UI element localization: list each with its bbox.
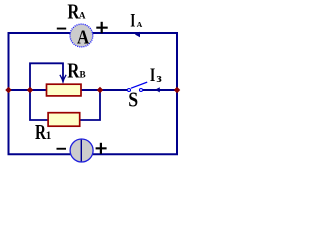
ammeter A (circle) — [70, 24, 93, 47]
wire middle branch right of switch — [143, 89, 177, 91]
wire rheostat slider bypass — [30, 63, 63, 90]
node junction rheostat left — [27, 87, 34, 94]
wire R1 branch right — [80, 89, 101, 120]
minus sign at battery — [57, 148, 67, 150]
wire left vertical — [8, 32, 10, 155]
resistor R1 body — [48, 113, 80, 127]
svg-text:I: I — [150, 66, 155, 86]
svg-text:A: A — [79, 11, 86, 21]
svg-text:з: з — [157, 70, 162, 85]
wire middle branch left — [8, 89, 128, 91]
node junction left edge — [5, 87, 12, 94]
plus sign at ammeter — [96, 27, 107, 29]
current arrow Is on switch wire (points left) — [155, 87, 160, 92]
switch S lever (open) — [131, 82, 147, 88]
arrowhead slider down onto rheostat — [61, 78, 65, 85]
resistor RB (rheostat) body — [47, 84, 82, 96]
svg-text:1: 1 — [46, 130, 52, 142]
current arrow IA on top wire (points left) — [135, 32, 140, 37]
wire top horizontal — [8, 32, 179, 34]
svg-text:S: S — [128, 87, 138, 111]
svg-text:A: A — [137, 20, 143, 29]
wire right vertical — [176, 32, 178, 155]
battery cell (circle) — [70, 139, 93, 162]
switch S terminal left — [128, 89, 131, 92]
node junction rheostat right — [97, 87, 104, 94]
minus sign at ammeter — [57, 28, 66, 30]
wire R1 branch left — [30, 89, 48, 120]
svg-text:I: I — [130, 12, 135, 32]
battery inner electrode line — [80, 140, 82, 162]
plus sign at battery — [96, 147, 107, 149]
svg-text:A: A — [77, 27, 90, 49]
svg-text:R: R — [67, 59, 80, 83]
switch S terminal right — [140, 89, 143, 92]
node junction right edge — [174, 87, 181, 94]
wire bottom horizontal — [8, 153, 179, 155]
svg-text:B: B — [80, 70, 86, 80]
